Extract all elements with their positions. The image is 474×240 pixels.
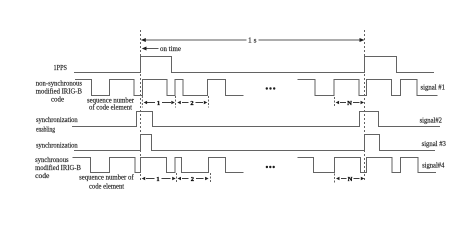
arrowhead: 1s left xyxy=(141,38,146,42)
tick: code element boundary x=210.5 (trace 5) xyxy=(210,173,212,183)
svg-text:synchronization: synchronization xyxy=(36,142,78,150)
arrowhead: t2 N left xyxy=(336,101,340,104)
arrow lines: element 2 (trace 5) xyxy=(182,178,189,180)
tick: code element boundary x=176.5 (trace 5) xyxy=(176,173,178,183)
arrow lines: element N (trace 5) xyxy=(341,178,347,180)
svg-text:2: 2 xyxy=(190,100,193,107)
arrowhead: t2 el1 left xyxy=(144,101,148,104)
arrowhead: t5 el1 right xyxy=(172,177,176,180)
arrowhead: t5 el2 right xyxy=(205,177,209,180)
arrowhead: 1s right xyxy=(360,38,365,42)
tick: N element boundary x=334.5 (trace 2) xyxy=(334,97,336,107)
svg-text:modified IRIG-B: modified IRIG-B xyxy=(35,164,81,172)
wire: synchronization trace (signal #3) xyxy=(74,135,435,151)
ellipsis: trace 5 xyxy=(266,166,268,168)
svg-text:code: code xyxy=(51,96,64,104)
svg-text:code element: code element xyxy=(89,183,124,191)
tick: code element boundary x=208.5 (trace 2) xyxy=(208,96,210,108)
arrow: on time xyxy=(147,48,159,50)
arrowhead: t5 N left xyxy=(336,177,340,180)
svg-text:of code element: of code element xyxy=(89,104,132,112)
tick: code element boundary x=142.4 (trace 2) xyxy=(141,96,143,108)
svg-text:signal#2: signal#2 xyxy=(420,117,443,125)
svg-text:code: code xyxy=(35,172,49,180)
svg-text:signal #3: signal #3 xyxy=(422,140,447,148)
wire: 1PPS trace xyxy=(74,57,434,73)
arrow lines: element 1 (trace 5) xyxy=(146,178,155,180)
wire: synchronous modified IRIG-B code trace (right part, signal #4) xyxy=(298,158,437,173)
svg-text:1PPS: 1PPS xyxy=(54,64,68,72)
svg-text:signal#4: signal#4 xyxy=(422,162,445,170)
svg-text:N: N xyxy=(348,176,353,183)
arrow lines: element N (trace 2) xyxy=(340,102,346,104)
wire: synchronization enabling trace (signal #2) xyxy=(72,112,440,127)
arrow lines: element 2 (trace 2) xyxy=(182,102,189,104)
arrowhead: t2 N right xyxy=(361,101,365,104)
arrowhead: t5 el2 left xyxy=(178,177,182,180)
arrowhead: t5 el1 left xyxy=(142,177,146,180)
svg-text:1: 1 xyxy=(157,100,160,107)
arrowhead: t2 el2 right xyxy=(204,101,208,104)
svg-text:non-synchronous: non-synchronous xyxy=(36,80,82,88)
svg-text:synchronous: synchronous xyxy=(35,156,69,164)
svg-text:N: N xyxy=(347,100,352,107)
svg-text:modified IRIG-B: modified IRIG-B xyxy=(36,88,83,96)
wire: non-synchronous modified IRIG-B code trace (left part, signal #1) xyxy=(75,80,244,96)
arrow: 1 s span xyxy=(146,39,360,41)
dashed vertical reference line left (on-time mark) xyxy=(140,30,142,181)
svg-text:sequence number of: sequence number of xyxy=(79,174,134,182)
svg-text:1: 1 xyxy=(156,176,159,183)
tick: N element boundary x=334.5 (trace 5) xyxy=(334,174,336,183)
svg-text:synchronization: synchronization xyxy=(36,116,78,124)
wire: non-synchronous modified IRIG-B code trace (right part, signal #1) xyxy=(298,80,438,96)
svg-text:2: 2 xyxy=(191,176,194,183)
ellipsis: trace 2 xyxy=(266,87,268,89)
dashed vertical reference line right (1s mark) xyxy=(364,30,366,182)
arrowhead: t5 N right xyxy=(361,177,365,180)
svg-text:1 s: 1 s xyxy=(248,37,257,45)
arrow lines: element 1 (trace 2) xyxy=(146,103,360,179)
svg-text:enabling: enabling xyxy=(36,126,55,134)
arrowhead: on time xyxy=(142,47,147,51)
tick: code element boundary x=175.5 (trace 2) xyxy=(175,96,177,108)
wire: synchronous modified IRIG-B code trace (left part, signal #4) xyxy=(73,158,244,173)
svg-text:signal #1: signal #1 xyxy=(421,84,446,92)
arrowhead: t2 el2 left xyxy=(177,101,181,104)
svg-text:on time: on time xyxy=(160,45,181,53)
arrowhead: t2 el1 right xyxy=(171,101,175,104)
